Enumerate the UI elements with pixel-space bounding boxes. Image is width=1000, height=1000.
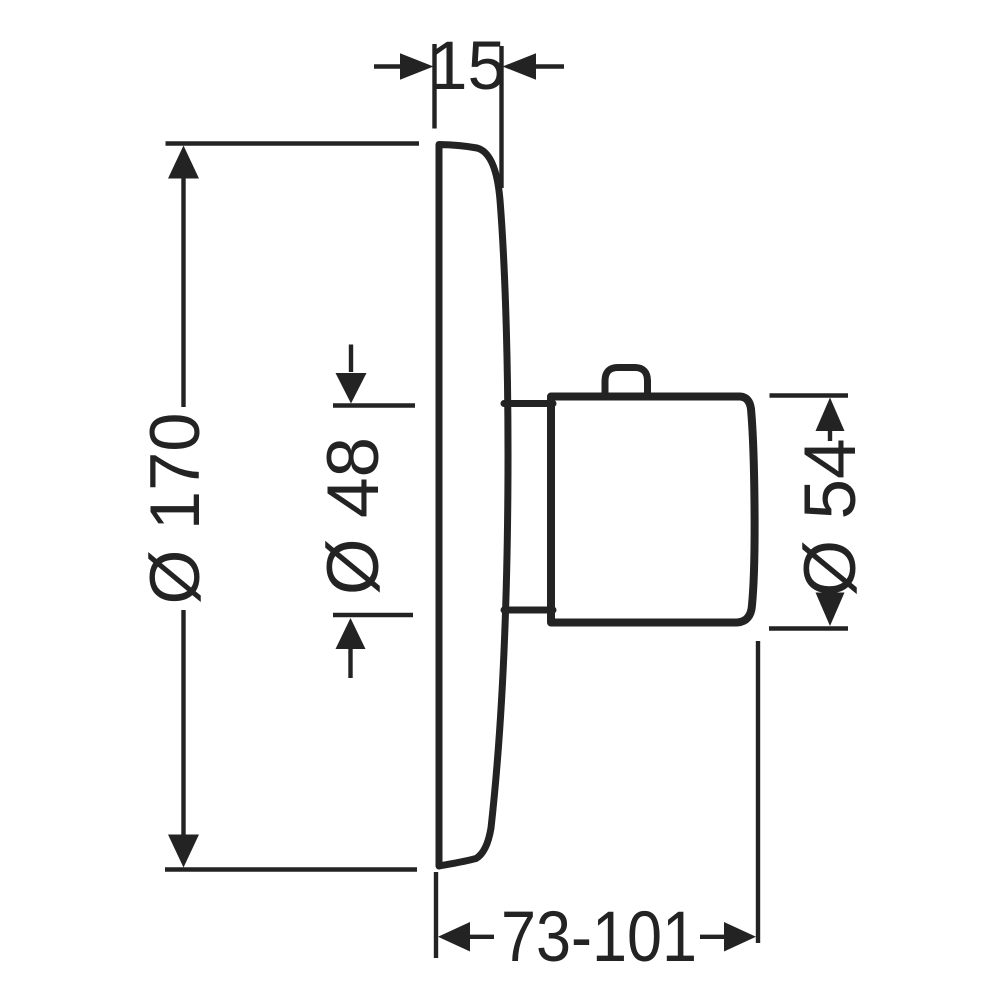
dim 73-101: right extension line [756,641,760,943]
dim 15: left extension line [432,44,436,129]
dim 54: bottom extension line [769,626,848,630]
safety button on top of handle [605,368,648,400]
dim 15: right leader line [536,64,564,68]
dim 170: upper dimension line [181,178,185,407]
svg-text:15: 15 [429,27,506,104]
dim 170: lower dimension line [181,610,185,835]
dim 48: bottom extension line [333,613,413,617]
dim 73-101: left arrow tail [469,935,494,939]
svg-text:Ø 54: Ø 54 [790,438,871,596]
dim 54: top arrow tail [828,430,832,441]
dim 170: bottom arrowhead [168,835,199,868]
valve neck top edge [504,400,553,407]
dim 54: top extension line [770,393,849,397]
dim 54: top arrowhead [816,398,845,432]
dim 15: left arrowhead [400,53,434,80]
dim 48: bottom arrow tail [348,649,352,678]
dim 54: bottom arrowhead [816,593,845,627]
dim 15: right extension line [499,46,503,188]
dim 73-101: right arrow tail [700,935,725,939]
svg-text:Ø 48: Ø 48 [313,437,394,595]
dim 48: top extension line [333,403,415,407]
dim 170: top arrowhead [168,146,199,179]
svg-text:73-101: 73-101 [501,898,697,977]
dim 73-101: left arrowhead [438,922,470,952]
dim 48: top arrow tail [349,345,353,373]
dim 54: bottom arrow tail [828,588,832,596]
dim 73-101: left extension line [434,872,438,958]
valve neck bottom edge [504,607,553,614]
escutcheon plate side profile [439,145,508,867]
dim 73-101: right arrowhead [724,922,756,952]
dim 48: top arrowhead [336,373,367,404]
dim 15: left leader line [374,64,403,68]
dim 48: bottom arrowhead [336,618,366,649]
dim 15: right arrowhead [503,53,537,80]
dim 170: top extension line [166,141,420,145]
svg-text:Ø 170: Ø 170 [135,412,214,604]
thermostat handle body [551,397,755,623]
dim 170: bottom extension line [165,867,417,871]
